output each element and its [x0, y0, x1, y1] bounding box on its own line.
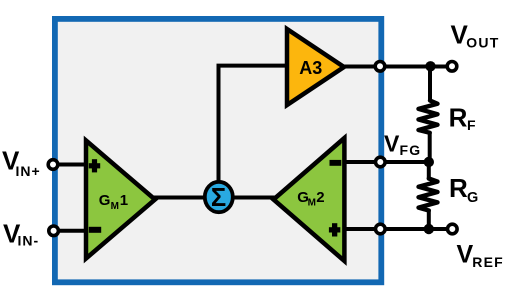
svg-text:REF: REF: [472, 254, 504, 270]
svg-text:FG: FG: [400, 142, 422, 158]
svg-text:M: M: [308, 198, 316, 209]
svg-text:M: M: [111, 201, 119, 212]
svg-text:IN+: IN+: [16, 163, 41, 179]
svg-text:G: G: [99, 192, 111, 209]
svg-text:OUT: OUT: [466, 34, 499, 50]
svg-text:F: F: [467, 117, 476, 133]
svg-text:G: G: [467, 190, 478, 206]
svg-text:V: V: [384, 131, 400, 157]
svg-text:1: 1: [120, 192, 128, 209]
svg-text:R: R: [449, 103, 468, 133]
svg-text:Σ: Σ: [211, 184, 226, 212]
svg-text:2: 2: [316, 189, 324, 206]
svg-text:IN-: IN-: [18, 233, 40, 249]
svg-text:R: R: [449, 173, 468, 203]
svg-text:V: V: [457, 241, 474, 269]
svg-text:A3: A3: [299, 58, 322, 78]
